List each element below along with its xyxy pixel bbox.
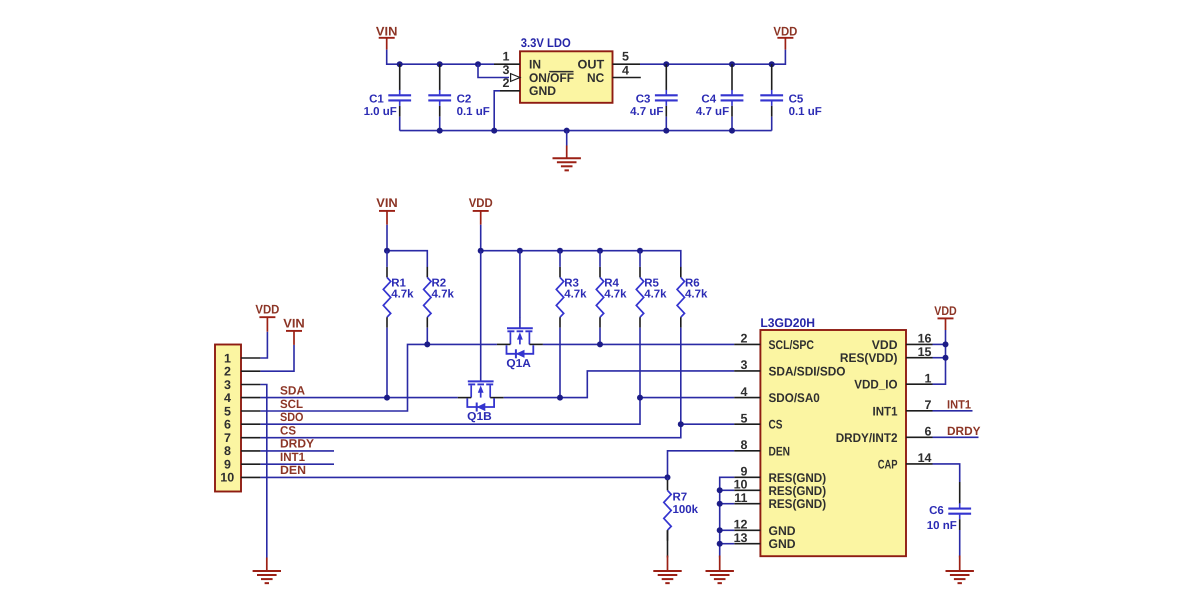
power flag VIN (pullup rail) [376, 196, 398, 225]
svg-text:8: 8 [741, 438, 748, 452]
svg-text:VDD: VDD [255, 303, 279, 317]
svg-text:C2: C2 [457, 94, 472, 106]
svg-text:9: 9 [741, 465, 748, 479]
junction C2 top [437, 61, 443, 67]
svg-text:0.1 uF: 0.1 uF [789, 106, 822, 118]
svg-text:SDA/SDI/SDO: SDA/SDI/SDO [769, 364, 846, 378]
junction C2 bottom [437, 128, 443, 134]
wire output rail [640, 50, 785, 65]
wire R4 top lead [599, 251, 601, 267]
wire SDA/SDI/SDO net (3.3V side) [504, 371, 735, 398]
svg-text:8: 8 [224, 444, 231, 458]
wire SCL/SPC net (3.3V side) [543, 343, 734, 345]
svg-text:VIN: VIN [376, 196, 398, 210]
svg-text:5: 5 [741, 411, 748, 425]
svg-text:7: 7 [224, 431, 231, 445]
wire VIN pullup rail [387, 225, 427, 267]
svg-text:VDD_IO: VDD_IO [854, 378, 897, 392]
wire R4 bottom to SCL/SPC [599, 328, 601, 345]
wire R1 top lead [386, 251, 388, 267]
svg-text:C4: C4 [701, 94, 716, 106]
svg-text:4.7k: 4.7k [604, 289, 627, 301]
wire Q1A gate net [519, 251, 521, 318]
junction R3 top [557, 248, 563, 254]
wire R6 bottom to CS [680, 328, 682, 425]
svg-text:OUT: OUT [578, 58, 605, 72]
svg-text:0.1 uF: 0.1 uF [457, 106, 490, 118]
svg-text:VDD: VDD [469, 196, 493, 210]
wire INT1 stub [260, 463, 334, 465]
ground (connector) [253, 558, 281, 584]
wire pin11 stub [720, 503, 735, 505]
resistor R2 [424, 267, 455, 328]
junction R5 / SDO [637, 395, 643, 401]
wire pin2 to VIN [260, 345, 294, 371]
capacitor C3 [630, 64, 678, 130]
svg-text:13: 13 [734, 531, 748, 545]
wire RES/GND bus [720, 477, 735, 557]
svg-text:INT1: INT1 [947, 398, 971, 412]
resistor R1 [383, 267, 414, 328]
svg-text:SCL: SCL [280, 397, 303, 411]
wire CS net [260, 424, 734, 438]
svg-text:4.7k: 4.7k [685, 289, 708, 301]
svg-text:6: 6 [925, 425, 932, 439]
wire R5 top lead [639, 251, 641, 267]
junction C4 top [729, 61, 735, 67]
transistor Q1B [458, 370, 504, 423]
wire pin16 stub [933, 343, 946, 345]
wire pin13 stub [720, 543, 735, 545]
resistor R5 [636, 267, 667, 328]
svg-text:14: 14 [918, 451, 932, 465]
wire SDA net (5V side) [260, 397, 457, 399]
svg-text:DRDY: DRDY [947, 424, 981, 438]
svg-text:4: 4 [741, 385, 748, 399]
svg-text:VIN: VIN [283, 316, 305, 330]
svg-text:CS: CS [769, 418, 783, 432]
wire R5 bottom to SDO [639, 328, 641, 398]
junction C3 bottom [663, 128, 669, 134]
wire pin15 stub [933, 357, 946, 359]
svg-text:15: 15 [918, 345, 932, 359]
wire DRDY net (right) [933, 436, 979, 438]
svg-text:3: 3 [741, 358, 748, 372]
wire ON/OFF branch [478, 64, 509, 77]
junction pin16 / VDD [943, 341, 949, 347]
svg-text:INT1: INT1 [280, 450, 305, 464]
wire ground rail (top section) [400, 130, 772, 132]
junction C4 bottom [729, 128, 735, 134]
connector J1 (10-pin header) [215, 345, 260, 492]
svg-text:16: 16 [918, 332, 932, 346]
svg-text:4.7k: 4.7k [564, 289, 587, 301]
svg-text:10: 10 [220, 471, 234, 485]
junction R1 top [384, 248, 390, 254]
svg-text:4.7 uF: 4.7 uF [696, 106, 729, 118]
svg-text:4: 4 [622, 64, 629, 78]
junction VDD rail / Q1B gate [478, 248, 484, 254]
junction pin12 / bus [717, 527, 723, 533]
wire R3 bottom to SDA(3.3V) [559, 328, 561, 398]
svg-text:3: 3 [224, 378, 231, 392]
svg-text:10: 10 [734, 478, 748, 492]
svg-text:L3GD20H: L3GD20H [760, 316, 815, 330]
svg-text:C6: C6 [929, 505, 944, 517]
junction R5 top [637, 248, 643, 254]
svg-text:2: 2 [741, 332, 748, 346]
wire SDO net [260, 398, 734, 425]
wire DEN net [260, 451, 734, 478]
svg-text:INT1: INT1 [873, 404, 898, 418]
voltage regulator U2 3.3V LDO [494, 36, 641, 103]
svg-text:7: 7 [925, 398, 932, 412]
svg-text:DRDY/INT2: DRDY/INT2 [836, 431, 898, 445]
svg-text:3: 3 [503, 63, 510, 77]
svg-text:SDO/SA0: SDO/SA0 [769, 391, 820, 405]
junction pin15 / VDD [943, 355, 949, 361]
svg-text:2: 2 [224, 365, 231, 379]
svg-text:100k: 100k [673, 504, 699, 516]
junction C5 top [769, 61, 775, 67]
power flag VDD (connector) [255, 303, 279, 332]
wire R7 bottom lead [667, 530, 669, 557]
svg-text:1: 1 [224, 351, 231, 365]
svg-text:SCL/SPC: SCL/SPC [769, 338, 815, 352]
ground (top section) [553, 146, 581, 171]
junction ON/OFF branch [475, 61, 481, 67]
svg-text:3.3V LDO: 3.3V LDO [521, 36, 571, 50]
wire pin1 to VDD [260, 332, 267, 358]
power flag VDD (IC right) [934, 304, 957, 330]
junction R1 bottom [384, 395, 390, 401]
wire R7 top lead [667, 477, 669, 480]
capacitor C4 [696, 64, 744, 130]
svg-text:SDO: SDO [280, 410, 304, 424]
svg-text:Q1A: Q1A [506, 358, 530, 370]
svg-text:1: 1 [925, 371, 932, 385]
svg-text:DRDY: DRDY [280, 437, 314, 451]
ground (RES bus) [706, 556, 734, 584]
resistor R7 [664, 480, 699, 541]
capacitor C2 [428, 64, 490, 130]
svg-text:4.7k: 4.7k [432, 289, 455, 301]
svg-text:VIN: VIN [376, 25, 398, 39]
svg-text:1: 1 [503, 50, 510, 64]
junction pin11 / bus [717, 501, 723, 507]
wire DRDY stub [260, 450, 334, 452]
svg-text:NC: NC [587, 71, 604, 85]
ground (R7) [653, 556, 681, 584]
svg-text:IN: IN [529, 58, 541, 72]
svg-text:SDA: SDA [280, 384, 305, 398]
svg-text:VDD: VDD [934, 304, 957, 318]
svg-text:RES(GND): RES(GND) [769, 471, 827, 485]
svg-text:11: 11 [734, 491, 747, 505]
svg-text:ON/OFF: ON/OFF [529, 71, 574, 85]
junction C3 top [663, 61, 669, 67]
resistor R3 [556, 267, 587, 328]
svg-text:RES(GND): RES(GND) [769, 484, 827, 498]
svg-text:C5: C5 [789, 94, 804, 106]
wire SCL net (5V side) [260, 344, 497, 411]
svg-text:C3: C3 [636, 94, 651, 106]
power flag VDD (top) [773, 25, 797, 50]
junction GND drop [491, 128, 497, 134]
svg-text:RES(GND): RES(GND) [769, 497, 827, 511]
wire R2 bottom to SCL(5V) [426, 328, 428, 345]
gyroscope IC U1 (L3GD20H) [734, 316, 933, 556]
junction C1 top [397, 61, 403, 67]
svg-text:VDD: VDD [773, 25, 797, 39]
svg-text:CS: CS [280, 423, 296, 437]
svg-text:Q1B: Q1B [467, 411, 492, 423]
resistor R6 [677, 267, 708, 328]
svg-text:1.0 uF: 1.0 uF [364, 106, 397, 118]
svg-text:GND: GND [769, 524, 796, 538]
svg-text:5: 5 [224, 404, 231, 418]
wire CAP net to C6 [933, 464, 960, 482]
power flag VIN (connector) [283, 316, 305, 345]
svg-text:12: 12 [734, 518, 748, 532]
junction pin13 / bus [717, 541, 723, 547]
wire VDD pullup rail [481, 225, 681, 267]
svg-text:6: 6 [224, 418, 231, 432]
junction R4 top [597, 248, 603, 254]
resistor R4 [596, 267, 627, 328]
svg-text:2: 2 [503, 76, 510, 90]
svg-text:CAP: CAP [878, 457, 898, 471]
junction DEN / R7 [665, 474, 671, 480]
svg-text:RES(VDD): RES(VDD) [840, 351, 898, 365]
junction R2 bottom [424, 341, 430, 347]
capacitor C1 [364, 64, 412, 130]
wire pin3 to ground [260, 385, 266, 558]
capacitor C5 [760, 64, 822, 130]
svg-text:C1: C1 [369, 94, 384, 106]
wire pin12 stub [720, 529, 735, 531]
junction R4 bottom [597, 341, 603, 347]
junction R3 bottom [557, 395, 563, 401]
svg-text:4: 4 [224, 391, 231, 405]
power flag VDD (pullup rail) [469, 196, 493, 225]
svg-text:9: 9 [224, 458, 231, 472]
junction pin10 / bus [717, 487, 723, 493]
capacitor C6 [927, 482, 971, 558]
junction R6 / CS [678, 421, 684, 427]
wire VIN to input rail [387, 50, 494, 65]
wire pin10 stub [720, 489, 735, 491]
junction Q1A gate [517, 248, 523, 254]
svg-text:GND: GND [769, 537, 796, 551]
svg-text:4.7 uF: 4.7 uF [630, 106, 663, 118]
svg-text:R7: R7 [673, 491, 688, 503]
transistor Q1A [497, 317, 543, 370]
wire R3 top lead [559, 251, 561, 267]
wire VDD to pins 16/15/1 [933, 330, 946, 384]
power flag VIN (top) [376, 25, 398, 50]
svg-text:VDD: VDD [872, 338, 898, 352]
svg-text:10 nF: 10 nF [927, 520, 957, 532]
svg-text:DEN: DEN [280, 463, 306, 477]
wire R1 bottom to SDA [386, 328, 388, 398]
wire GND pin to bottom rail [494, 91, 500, 131]
svg-text:4.7k: 4.7k [391, 289, 414, 301]
ground (C6) [946, 556, 974, 584]
svg-text:4.7k: 4.7k [644, 289, 667, 301]
wire Q1B gate net [480, 251, 482, 371]
svg-text:GND: GND [529, 84, 556, 98]
svg-text:5: 5 [622, 50, 629, 64]
wire INT1 net (right) [933, 410, 973, 412]
wire ground stem [566, 131, 568, 146]
junction ground stem [564, 128, 570, 134]
svg-text:DEN: DEN [769, 444, 791, 458]
